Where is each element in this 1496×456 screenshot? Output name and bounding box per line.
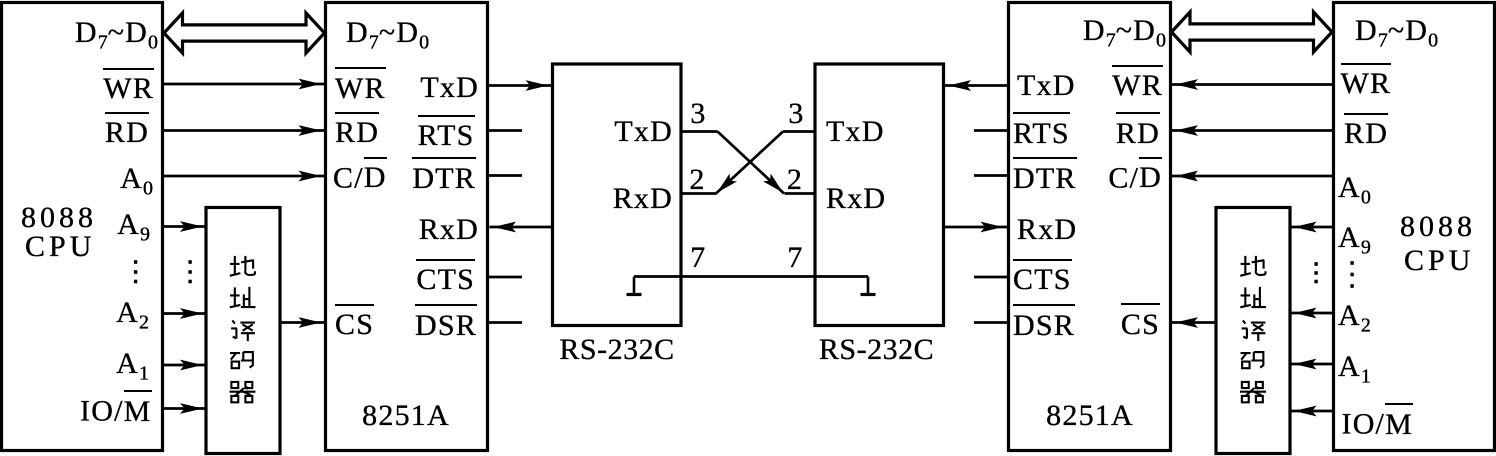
pin number 2 (right RS-232C)	[787, 165, 803, 195]
label RD (right 8251A)	[1116, 112, 1160, 149]
pin 2 stub (left RS-232C RxD)	[681, 192, 717, 195]
label 8251A (left 8251A)	[362, 401, 450, 431]
decoder char QI (right)	[1240, 382, 1266, 402]
label A1 (left CPU)	[116, 349, 149, 384]
ellipsis dots inside left CPU	[134, 260, 137, 283]
label 8251A (right 8251A)	[1046, 401, 1134, 431]
label A0 (left CPU)	[120, 164, 153, 199]
wire IO/M (right CPU to decoder)	[1290, 406, 1332, 417]
stub DTR (left 8251A)	[489, 174, 522, 177]
label IO/M (left CPU)	[80, 390, 151, 427]
8088 CPU box (left)	[2, 3, 163, 451]
wire A1 (right CPU to decoder)	[1290, 359, 1332, 370]
wire RxD (right RS-232C to 8251A)	[944, 222, 1008, 233]
label RxD (left 8251A)	[419, 215, 479, 245]
wire A1 (left CPU to decoder)	[164, 360, 207, 371]
ellipsis dots inside right CPU	[1350, 261, 1353, 288]
label RD (right CPU)	[1344, 113, 1388, 150]
data bus D7~D0 double arrow (right)	[1172, 12, 1333, 52]
wire CS (left decoder to 8251A)	[281, 317, 325, 328]
label WR (left 8251A)	[335, 67, 386, 104]
label RxD (right 8251A)	[1017, 215, 1077, 245]
label TxD (left 8251A)	[420, 73, 479, 103]
wire A0 to C/D (left CPU to 8251A)	[164, 171, 325, 182]
stub CTS (right 8251A)	[974, 276, 1008, 279]
label WR (right 8251A)	[1112, 65, 1163, 102]
label RD (left CPU)	[105, 112, 149, 149]
decoder char DI (left)	[230, 256, 255, 276]
label TxD (left RS-232C)	[614, 117, 673, 147]
decoder char YI (left)	[231, 320, 255, 341]
pin number 3 (left RS-232C)	[690, 99, 706, 129]
decoder char MA (left)	[230, 352, 254, 368]
decoder char ZHI (right)	[1240, 287, 1266, 307]
label 8088 (left CPU)	[21, 203, 97, 233]
pin 3 stub (right RS-232C TxD)	[783, 130, 815, 133]
pin 2 stub (right RS-232C RxD)	[785, 192, 816, 195]
label DSR (left 8251A)	[415, 304, 477, 341]
label TxD (right 8251A)	[1017, 71, 1076, 101]
label DSR (right 8251A)	[1013, 304, 1075, 341]
pin number 2 (left RS-232C)	[689, 165, 705, 195]
label D7~D0 (right 8251A)	[1083, 16, 1166, 51]
label RTS (right 8251A)	[1013, 112, 1070, 149]
address decoder box (right)	[1216, 208, 1290, 454]
label C/D (right 8251A)	[1108, 157, 1162, 194]
label CTS (left 8251A)	[416, 259, 475, 296]
label A2 (left CPU)	[116, 298, 149, 333]
RS-232C connector box (right)	[815, 64, 944, 326]
8251A USART box (left)	[326, 3, 488, 451]
wire RD (right CPU to 8251A)	[1172, 125, 1333, 136]
wire RD (left CPU to 8251A)	[164, 125, 325, 136]
wire A2 (right CPU to decoder)	[1290, 308, 1332, 319]
label A1 (right CPU)	[1338, 352, 1371, 387]
stub DSR (left 8251A)	[489, 321, 522, 324]
signal ground wire pin7-pin7	[634, 275, 868, 278]
wire TxD (right 8251A to RS-232C)	[945, 80, 1008, 91]
label CPU (right CPU)	[1404, 246, 1474, 276]
wire A0 to C/D (right CPU to 8251A)	[1172, 171, 1333, 182]
label TxD (right RS-232C)	[826, 117, 885, 147]
wire TxD (left 8251A to RS-232C)	[489, 80, 552, 91]
label A2 (right CPU)	[1338, 301, 1371, 336]
label RxD (right RS-232C)	[826, 184, 886, 214]
label D7~D0 (left 8251A)	[346, 18, 429, 53]
ellipsis dots left CPU-decoder gap	[188, 260, 191, 283]
label RS-232C (right)	[819, 335, 934, 365]
label IO/M (right CPU)	[1342, 403, 1413, 440]
label A9 (left CPU)	[117, 210, 150, 245]
stub DSR (right 8251A)	[974, 321, 1008, 324]
8251A USART box (right)	[1009, 3, 1171, 451]
stub CTS (left 8251A)	[489, 276, 522, 279]
wire RxD (left RS-232C to 8251A)	[490, 222, 553, 233]
label 8088 (right CPU)	[1400, 212, 1476, 242]
label CTS (right 8251A)	[1013, 259, 1072, 296]
RS-232C connector box (left)	[553, 64, 682, 326]
label C/D (left 8251A)	[333, 157, 387, 194]
decoder char ZHI (left)	[230, 287, 256, 307]
pin number 3 (right RS-232C)	[788, 99, 804, 129]
label RS-232C (left)	[559, 335, 674, 365]
label DTR (right 8251A)	[1013, 157, 1077, 194]
label CS (right 8251A)	[1121, 303, 1160, 340]
label CPU (left CPU)	[25, 232, 95, 262]
label RTS (left 8251A)	[418, 115, 475, 152]
label WR (right CPU)	[1341, 63, 1392, 100]
wire WR (right CPU to 8251A)	[1172, 79, 1333, 90]
label A9 (right CPU)	[1338, 223, 1371, 258]
decoder char YI (right)	[1242, 320, 1266, 341]
label WR (left CPU)	[103, 68, 154, 105]
signal ground stub (left)	[627, 277, 642, 295]
label D7~D0 (left CPU)	[75, 18, 158, 53]
stub RTS (left 8251A)	[489, 129, 522, 132]
wire A9 (left CPU to decoder)	[164, 221, 207, 232]
wire A9 (right CPU to decoder)	[1290, 222, 1332, 233]
pin 3 stub (left RS-232C TxD)	[681, 130, 718, 133]
crossover TxD-to-RxD diagonal (right to left)	[713, 132, 783, 197]
wire A2 (left CPU to decoder)	[164, 308, 207, 319]
label RxD (left RS-232C)	[613, 184, 673, 214]
label RD (left 8251A)	[335, 112, 379, 149]
label D7~D0 (right CPU)	[1355, 16, 1438, 51]
address decoder box (left)	[206, 208, 280, 454]
crossover TxD-to-RxD diagonal (left to right)	[718, 132, 787, 197]
data bus D7~D0 double arrow (left)	[164, 13, 325, 53]
pin number 7 (right RS-232C)	[787, 243, 803, 273]
wire IO/M (left CPU to decoder)	[164, 403, 207, 414]
ellipsis dots right CPU-decoder gap	[1314, 262, 1317, 283]
signal ground stub (right)	[861, 277, 876, 295]
decoder char MA (right)	[1241, 352, 1265, 368]
label CS (left 8251A)	[335, 304, 374, 341]
decoder char QI (left)	[230, 382, 256, 402]
wire WR (left CPU to 8251A)	[164, 79, 325, 90]
label A0 (right CPU)	[1338, 173, 1371, 208]
wire CS (right decoder to 8251A)	[1172, 317, 1217, 328]
8088 CPU box (right)	[1334, 3, 1495, 451]
stub RTS (right 8251A)	[974, 129, 1008, 132]
pin number 7 (left RS-232C)	[690, 243, 706, 273]
decoder char DI (right)	[1240, 256, 1265, 276]
stub DTR (right 8251A)	[974, 174, 1008, 177]
label DTR (left 8251A)	[412, 157, 476, 194]
